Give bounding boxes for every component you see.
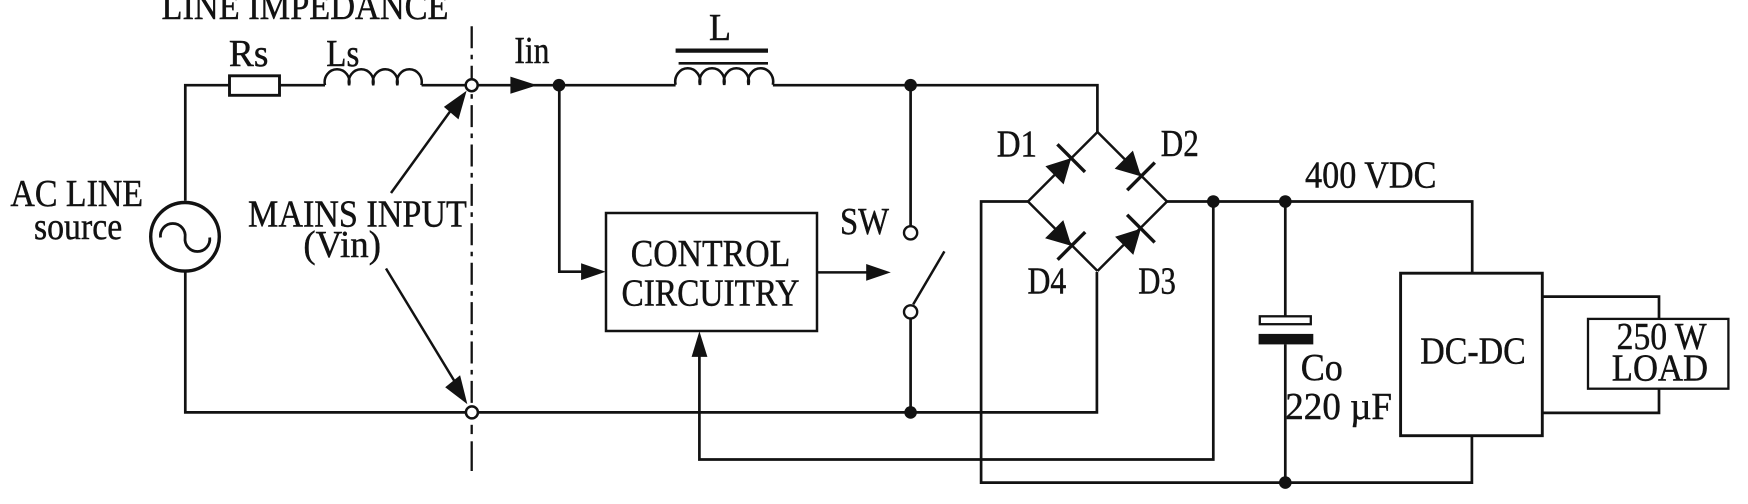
AC source circle (151, 203, 220, 272)
arrow into control circuitry left (581, 263, 606, 280)
bridge diamond edge D3 (bottom-right) (1098, 202, 1168, 272)
svg-text:D4: D4 (1028, 260, 1067, 302)
svg-text:Ls: Ls (326, 33, 359, 75)
wire top rail left segment (AC source to resistor) (185, 85, 229, 201)
arrow vin callout to bottom node (shaft) (386, 269, 455, 383)
diode D3 cathode bar (1127, 215, 1155, 243)
junction 400V rail feedback tap (1207, 195, 1220, 208)
capacitor Co bottom plate (1259, 334, 1314, 345)
bridge diamond edge D1 (left-top) (1028, 132, 1098, 202)
wire bottom rail (AC source bottom to bridge bottom vertex) (185, 272, 1097, 413)
wire control-sense tap down from top rail (559, 85, 582, 272)
arrow vin callout to bottom node (head) (445, 375, 467, 404)
svg-text:400 VDC: 400 VDC (1305, 155, 1436, 197)
diode D2 triangle (1115, 151, 1141, 177)
bridge diamond edge D2 (top-right) (1098, 132, 1168, 202)
node mains input bottom (open circle) (466, 406, 478, 418)
switch SW bottom contact circle (904, 305, 917, 318)
diode D1 triangle (1045, 158, 1071, 184)
inductor L core line thin (679, 62, 768, 65)
svg-text:L: L (709, 7, 731, 49)
wire top rail middle (resistor to Ls coil) (280, 84, 326, 87)
wire capacitor top leg (1284, 202, 1287, 317)
wire top rail (Ls coil through node to L coil) (422, 84, 676, 87)
junction negative rail capacitor bottom (1279, 476, 1292, 489)
svg-text:LINE IMPEDANCE: LINE IMPEDANCE (162, 0, 449, 28)
switch SW top contact circle (904, 226, 917, 239)
switch SW blade (913, 251, 944, 304)
wire switch lower (909, 319, 912, 413)
DC-DC converter box (1401, 273, 1543, 436)
arrow Iin on top rail (510, 77, 537, 94)
node mains input top (open circle) (466, 79, 478, 91)
svg-text:SW: SW (840, 201, 889, 243)
svg-text:LOAD: LOAD (1612, 348, 1708, 390)
inductor L coil (675, 68, 773, 85)
svg-text:D3: D3 (1138, 260, 1176, 302)
arrow mains-input callout to top node (shaft) (391, 104, 456, 193)
wire capacitor bottom leg (1284, 344, 1287, 482)
svg-text:DC-DC: DC-DC (1420, 331, 1526, 373)
inductor L core line thick (676, 48, 768, 52)
inductor Ls (325, 69, 422, 85)
wire feedback from 400V node to control circuitry (699, 202, 1213, 460)
junction after Iin arrow (553, 79, 566, 92)
junction 400V rail capacitor top (1279, 195, 1292, 208)
wire DC-DC output bottom to load (1542, 389, 1659, 413)
junction bottom rail at switch (904, 406, 917, 419)
capacitor Co top plate (1260, 316, 1311, 324)
wire bridge left vertex to negative rail and DC-DC bottom (981, 202, 1472, 483)
junction top rail at switch (904, 79, 917, 92)
arrow control circuitry to switch (shaft) (817, 271, 868, 274)
diode D3 triangle (1115, 229, 1141, 255)
svg-text:220 µF: 220 µF (1285, 386, 1392, 428)
dash-dot mains boundary line (471, 26, 473, 406)
arrow feedback into control circuitry bottom (692, 331, 708, 357)
dash-dot mains boundary line lower dash 2 (471, 441, 473, 471)
wire 400 VDC rail into DC-DC top (1167, 202, 1472, 274)
CONTROL CIRCUITRY box (606, 213, 817, 331)
svg-text:source: source (34, 206, 122, 248)
250W LOAD box (1588, 319, 1728, 389)
svg-text:Rs: Rs (229, 33, 269, 75)
diode D4 cathode bar (1058, 232, 1086, 260)
AC source sine symbol (160, 224, 209, 252)
svg-text:D1: D1 (997, 124, 1037, 166)
svg-text:CONTROL: CONTROL (631, 233, 791, 275)
wire switch upper (909, 85, 912, 226)
wire top rail right (L coil to bridge top corner) (773, 85, 1098, 133)
bridge diamond edge D4 (left-bottom) (1028, 202, 1098, 272)
arrow mains-input callout to top node (head) (444, 91, 467, 120)
svg-text:Iin: Iin (514, 30, 549, 72)
arrow control circuitry to switch (head) (866, 264, 891, 281)
diode D4 triangle (1045, 220, 1071, 246)
wire DC-DC output top to load (1542, 297, 1659, 319)
svg-text:CIRCUITRY: CIRCUITRY (621, 273, 799, 315)
svg-text:D2: D2 (1161, 123, 1199, 165)
dash-dot mains boundary line lower dash 1 (471, 425, 473, 434)
svg-text:Co: Co (1301, 347, 1343, 389)
diode D1 cathode bar (1057, 144, 1085, 172)
diode D2 cathode bar (1127, 163, 1155, 191)
svg-text:(Vin): (Vin) (303, 224, 381, 266)
resistor Rs (230, 76, 280, 96)
